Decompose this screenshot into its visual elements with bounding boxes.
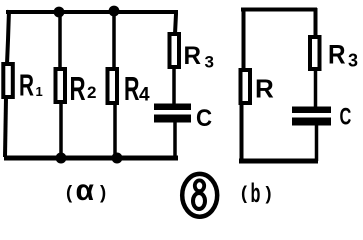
svg-text:): ) [100,182,106,203]
svg-text:2: 2 [87,83,96,102]
svg-text:R: R [124,70,139,107]
svg-text:): ) [266,184,272,204]
resistor R3 (circuit a) [170,34,180,67]
wire: circuit (a) right vertical drop to R3 [175,10,176,34]
capacitor C (circuit a) top plate [154,104,191,111]
svg-text:R: R [184,43,202,70]
wire: circuit (b) top horizontal [241,8,317,12]
wire: lead between R3 and capacitor C (circuit a) [172,66,176,106]
svg-text:b: b [251,178,261,208]
label (b) [241,178,272,208]
wire: circuit (b) left vertical (R top lead) [242,8,246,70]
svg-text:R: R [70,71,86,107]
wire: circuit (b) bottom horizontal [239,159,318,164]
label R2 [70,71,97,107]
wire: circuit (a) top horizontal bus [6,10,176,14]
label C (circuit b) [340,103,352,130]
node: bottom junction of R2 branch [56,153,67,164]
resistor R2 [56,69,66,102]
svg-text:(: ( [66,182,73,203]
svg-text:4: 4 [139,85,150,106]
wire: circuit (a) bottom horizontal bus [4,156,178,161]
label R3 (circuit b) [328,40,358,70]
resistor R (circuit b) [241,70,251,103]
label R1 [19,67,43,102]
wire: R2 bottom lead [59,102,63,158]
svg-text:3: 3 [348,51,358,71]
resistor R3 (circuit b) [310,37,320,69]
wire: R2 top lead [58,12,62,69]
wire: R4 bottom lead [113,103,117,158]
svg-text:3: 3 [205,53,214,72]
wire: C bottom lead (circuit a) [173,122,177,158]
capacitor C (circuit b) bottom plate [292,118,331,126]
capacitor C (circuit b) top plate [292,107,331,114]
svg-text:R: R [19,67,34,102]
wire: C bottom lead (circuit b) [315,125,319,161]
svg-text:C: C [196,104,212,131]
svg-text:R: R [328,40,346,69]
figure number circle [182,174,217,217]
svg-text:1: 1 [36,84,43,99]
label R4 [124,70,150,107]
label (a) [66,174,106,207]
label R (circuit b) [255,74,274,104]
resistor R1 [3,64,13,97]
wire: lead between R3 and C (circuit b) [314,68,318,109]
svg-text:(: ( [241,183,247,203]
wire: R4 top lead [112,12,116,69]
node: top junction of R2 branch [54,7,65,18]
wire: circuit (b) right vertical (R3 top lead) [314,8,318,37]
capacitor C (circuit a) bottom plate [154,115,191,123]
svg-text:R: R [255,74,274,104]
figure number 8 [193,180,205,209]
node: bottom junction of R4 branch [112,153,123,164]
label R3 (circuit a) [184,43,214,72]
wire: R bottom lead (circuit b) [240,103,244,161]
resistor R4 [108,69,118,103]
wire: R1 bottom lead [5,98,6,157]
svg-text:C: C [340,103,352,130]
label C (circuit a) [196,104,212,131]
wire: circuit (a) left vertical (R1 top lead) [7,10,9,64]
svg-text:α: α [76,174,95,207]
node: top junction of R4 branch [109,6,120,17]
